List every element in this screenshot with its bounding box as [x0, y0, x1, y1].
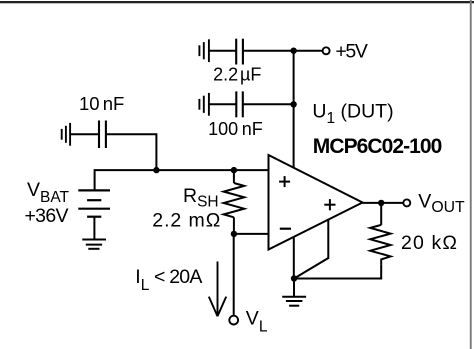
svg-text:VL: VL — [246, 307, 268, 335]
op-amp V- pin to ground node — [293, 237, 295, 279]
resistor R1 20k lead top — [380, 203, 382, 225]
wire +5V node down to 100nF node — [293, 51, 295, 105]
terminal +5V — [323, 47, 330, 54]
svg-text:nF: nF — [103, 93, 125, 114]
wire C1 to +5V node — [243, 50, 294, 52]
wire ground node to ground symbol — [293, 279, 295, 297]
wire C2 to supply node — [243, 103, 294, 105]
svg-text:100: 100 — [208, 119, 238, 139]
svg-text:VOUT: VOUT — [418, 190, 465, 215]
svg-text:U1 (DUT): U1 (DUT) — [312, 100, 393, 127]
junction node RSH top — [231, 167, 237, 173]
wire battery to ground — [93, 217, 95, 240]
svg-text:20 kΩ: 20 kΩ — [401, 232, 457, 254]
resistor R1 20k — [370, 225, 390, 265]
ground G5 (op-amp) — [282, 297, 306, 306]
ground G1 (sideways, 2.2uF) — [199, 39, 209, 62]
wire RSH bottom down to VL terminal — [233, 234, 235, 316]
wire node to +5V terminal — [294, 50, 323, 52]
svg-text:VBAT: VBAT — [27, 179, 70, 206]
op-amp REF pin down then diagonal to ground node — [294, 220, 328, 279]
junction node ground — [291, 275, 297, 281]
ground G4 (battery) — [82, 240, 106, 249]
wire battery top to op-amp +IN — [95, 170, 269, 190]
wire G3 to C3 — [70, 133, 99, 135]
ground G3 (sideways, 10nF) — [62, 123, 70, 146]
junction node +5V — [290, 48, 296, 54]
resistor R_SH — [224, 170, 245, 234]
capacitor C3 10nF — [99, 121, 106, 149]
page top border — [0, 1, 474, 3]
svg-text:IL < 20A: IL < 20A — [135, 266, 202, 294]
battery V_BAT — [78, 190, 110, 216]
ground G2 (sideways, 100nF) — [199, 93, 209, 116]
svg-text:2.2: 2.2 — [213, 64, 238, 84]
svg-text:2.2 mΩ: 2.2 mΩ — [152, 210, 220, 232]
op-amp +IN symbol — [279, 176, 290, 187]
op-amp -IN symbol — [280, 228, 291, 230]
wire supply node down to op-amp V+ pin — [293, 104, 295, 168]
op-amp +REF symbol — [324, 199, 335, 210]
wire C3 right then down to main node — [106, 134, 156, 170]
capacitor C1 2.2uF — [236, 39, 243, 65]
terminal VOUT — [403, 199, 410, 206]
wire R1 bottom to ground node — [294, 264, 381, 278]
svg-text:+5V: +5V — [335, 41, 368, 63]
capacitor C2 100nF — [236, 91, 243, 117]
terminal VL — [229, 316, 238, 325]
svg-text:nF: nF — [242, 119, 263, 139]
svg-text:10: 10 — [79, 93, 100, 114]
svg-text:µF: µF — [240, 64, 261, 84]
current arrow IL — [209, 262, 226, 317]
junction node RSH bottom — [231, 231, 237, 237]
junction node VOUT — [378, 200, 384, 206]
page right border — [470, 0, 472, 349]
wire op-amp output to VOUT terminal — [363, 202, 404, 204]
svg-text:RSH: RSH — [183, 185, 219, 211]
wire G1 to C1 — [209, 50, 236, 52]
op-amp U1 triangle — [269, 155, 363, 250]
junction node 10nF/main — [153, 167, 159, 173]
svg-text:+36V: +36V — [25, 205, 69, 227]
wire RSH bottom to op-amp -IN — [234, 233, 269, 235]
junction node 100nF — [290, 101, 296, 107]
svg-text:MCP6C02-100: MCP6C02-100 — [313, 135, 443, 158]
wire G2 to C2 — [209, 103, 236, 105]
